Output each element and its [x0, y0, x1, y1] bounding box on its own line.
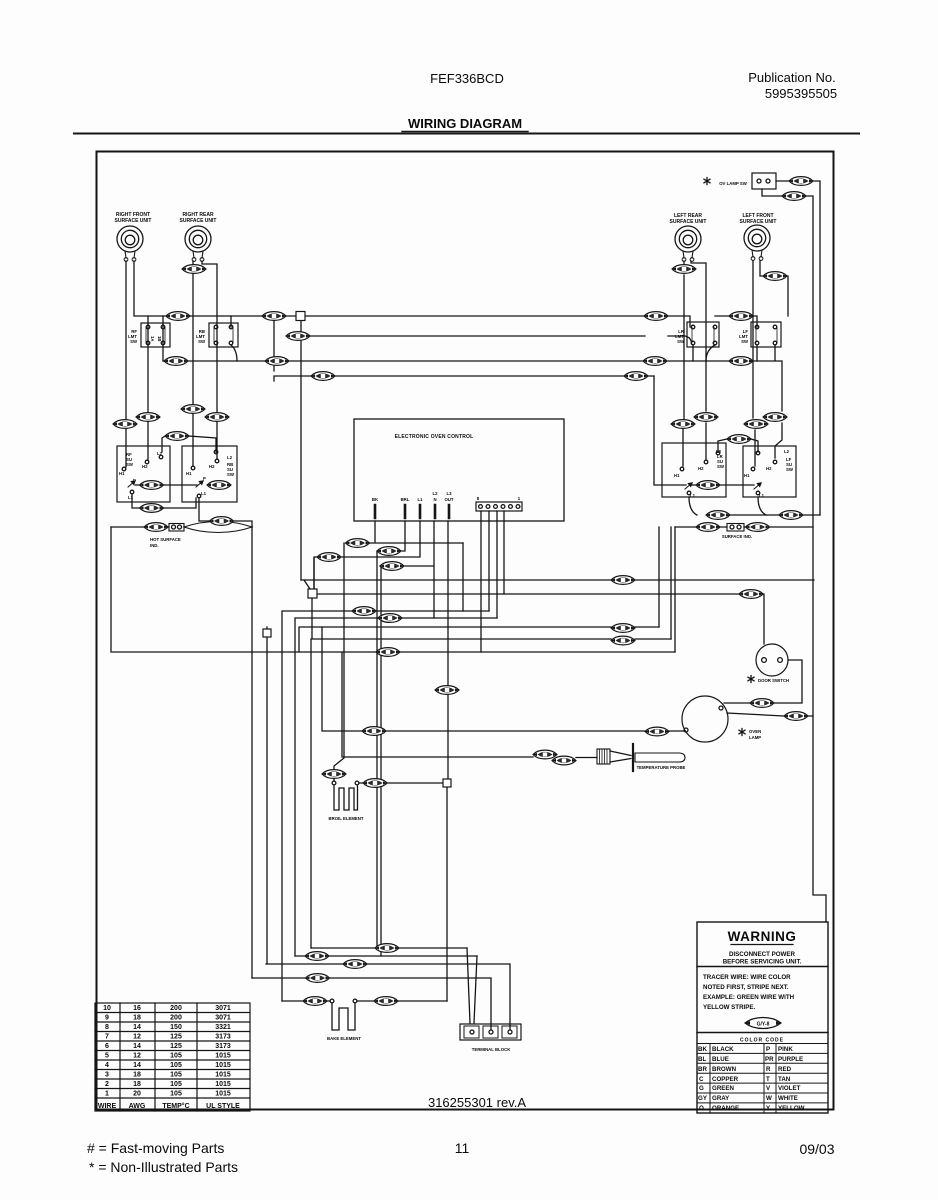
wire P link left boxes: [135, 484, 197, 486]
svg-text:1015: 1015: [215, 1081, 231, 1088]
wire bus y618: [295, 618, 497, 956]
svg-text:SURFACE IND.: SURFACE IND.: [722, 534, 752, 539]
surface unit RR: [185, 226, 211, 261]
wire RF coil left drop: [125, 261, 127, 467]
svg-text:SW: SW: [227, 472, 235, 477]
wire V into junction sq B: [304, 558, 314, 589]
svg-text:12: 12: [133, 1053, 141, 1060]
svg-text:BAKE ELEMENT: BAKE ELEMENT: [327, 1036, 361, 1041]
svg-text:YELLOW: YELLOW: [778, 1105, 805, 1112]
wire EOC pin L1 drop y557: [314, 521, 420, 589]
svg-text:G/Y-8: G/Y-8: [757, 1022, 770, 1028]
svg-text:BL: BL: [698, 1056, 706, 1063]
svg-text:H1: H1: [119, 471, 125, 476]
G/Y-8 tracer oval: [745, 1018, 781, 1029]
svg-text:1A: 1A: [150, 336, 155, 342]
wire door switch loop: [724, 660, 802, 703]
wire bus y611: [282, 611, 489, 1001]
svg-text:TRACER WIRE: WIRE COLOR: TRACER WIRE: WIRE COLOR: [703, 974, 791, 981]
wire LF LMT bottom pins drop: [757, 345, 775, 361]
svg-text:OVEN: OVEN: [749, 729, 761, 734]
connector oval bus y618: [378, 614, 402, 623]
wire EOC pin L3 straight drop to junction D: [447, 521, 449, 779]
svg-text:H2: H2: [209, 464, 215, 469]
svg-text:TAN: TAN: [778, 1076, 791, 1083]
svg-text:H2: H2: [766, 466, 772, 471]
wire EOC pin BK drop y543: [334, 521, 463, 770]
svg-text:8: 8: [105, 1024, 109, 1031]
svg-text:BR: BR: [698, 1066, 707, 1073]
svg-text:SURFACE UNIT: SURFACE UNIT: [115, 218, 152, 224]
wire bus y580: [301, 579, 814, 581]
temperature probe: [597, 749, 610, 764]
svg-text:14: 14: [133, 1043, 141, 1050]
wire L2 link left boxes via K oval: [162, 436, 216, 452]
svg-text:1015: 1015: [215, 1072, 231, 1079]
wire LF drop from bus y361 x782: [775, 423, 782, 458]
surface unit RF: [117, 226, 143, 261]
wire RF LMT right pin column x163: [162, 316, 164, 361]
svg-text:105: 105: [170, 1053, 182, 1060]
svg-text:R: R: [766, 1066, 771, 1073]
wire EOC pin BRL drop y551: [377, 521, 405, 947]
wire bus y316: [148, 316, 757, 327]
svg-text:5: 5: [105, 1053, 109, 1060]
junction square node D: [443, 779, 451, 787]
svg-text:PR: PR: [765, 1056, 774, 1063]
svg-text:WARNING: WARNING: [728, 929, 797, 944]
electronic oven control box: [354, 419, 564, 521]
wire bottom y978 to terminal block: [252, 978, 491, 1029]
connector ovals bus y316: [166, 312, 190, 321]
connector ovals bottom: [375, 944, 399, 953]
wire funnel to terminal block: [467, 948, 477, 1023]
wire LF SU L1 drop: [758, 497, 766, 515]
svg-text:DOOR SWITCH: DOOR SWITCH: [758, 678, 789, 683]
svg-text:105: 105: [170, 1062, 182, 1069]
switch RB LMT: [209, 323, 238, 347]
svg-text:Publication No.: Publication No.: [748, 70, 835, 85]
wire bus y594 door switch line: [318, 594, 764, 644]
wire x301 long drop from junction A to bus y580: [300, 321, 302, 580]
svg-text:IND.: IND.: [150, 543, 159, 548]
main frame border: [97, 152, 834, 1110]
svg-text:SURFACE UNIT: SURFACE UNIT: [180, 218, 217, 224]
wire P link right boxes: [690, 484, 754, 486]
svg-text:PINK: PINK: [778, 1046, 793, 1053]
connector ovals bus y361: [164, 357, 188, 366]
connector ovals top: [182, 265, 206, 274]
svg-text:1015: 1015: [215, 1091, 231, 1098]
svg-text:5995395505: 5995395505: [765, 86, 837, 101]
svg-text:RED: RED: [778, 1066, 792, 1073]
connector ovals bus y376: [311, 372, 335, 381]
svg-text:EXAMPLE: GREEN WIRE WITH: EXAMPLE: GREEN WIRE WITH: [703, 994, 795, 1001]
wire LF coil right jog to oval y276: [760, 261, 788, 316]
hot surface ind: [169, 524, 184, 532]
connector oval bus y594: [739, 590, 763, 599]
svg-text:L1: L1: [201, 491, 207, 496]
svg-text:N: N: [433, 497, 436, 502]
svg-text:10: 10: [103, 1005, 111, 1012]
wire junction sq C stub: [266, 627, 268, 629]
svg-text:YELLOW STRIPE.: YELLOW STRIPE.: [703, 1004, 756, 1011]
svg-text:H1: H1: [744, 473, 750, 478]
svg-text:14: 14: [133, 1062, 141, 1069]
svg-text:3173: 3173: [215, 1034, 231, 1041]
oven lamp switch: [704, 178, 710, 185]
wire bus y336: [287, 336, 691, 341]
svg-text:GREEN: GREEN: [712, 1085, 735, 1092]
svg-text:ORANGE: ORANGE: [712, 1105, 739, 1112]
svg-text:FEF336BCD: FEF336BCD: [430, 71, 504, 86]
svg-text:GRAY: GRAY: [712, 1095, 730, 1102]
color code table: [697, 1044, 828, 1114]
wire RR coil right jog to x217: [202, 261, 217, 459]
svg-text:W: W: [766, 1095, 772, 1102]
connector ovals EOC drops: [346, 539, 370, 548]
wire right riser x675: [674, 527, 676, 652]
svg-text:14: 14: [133, 1024, 141, 1031]
svg-text:SW: SW: [130, 339, 138, 344]
EOC terminal strip: [476, 502, 522, 511]
wire right riser x671: [670, 527, 672, 639]
svg-text:LAMP: LAMP: [749, 735, 761, 740]
svg-text:GY: GY: [698, 1095, 708, 1102]
svg-text:3321: 3321: [215, 1024, 231, 1031]
switch LR LMT: [687, 322, 719, 347]
svg-text:200: 200: [170, 1015, 182, 1022]
svg-text:SW: SW: [786, 467, 794, 472]
svg-text:DISCONNECT POWER: DISCONNECT POWER: [729, 951, 796, 958]
wire broil right to junction D: [359, 782, 443, 784]
wire temp probe feed: [342, 652, 533, 757]
svg-text:11: 11: [455, 1140, 470, 1156]
wire RF L1 drop to BU oval: [132, 494, 196, 508]
svg-text:9: 9: [105, 1015, 109, 1022]
svg-text:SURFACE UNIT: SURFACE UNIT: [740, 219, 777, 225]
surface unit LF: [744, 225, 770, 260]
svg-text:H1: H1: [186, 471, 192, 476]
svg-text:TERMINAL BLOCK: TERMINAL BLOCK: [472, 1047, 511, 1052]
wire RB L1 drop to ST oval: [199, 498, 252, 527]
svg-text:2: 2: [105, 1081, 109, 1088]
svg-text:L1: L1: [128, 495, 134, 500]
svg-text:TEMPERATURE PROBE: TEMPERATURE PROBE: [637, 765, 686, 770]
svg-text:TEMP°C: TEMP°C: [162, 1102, 189, 1110]
svg-text:125: 125: [170, 1034, 182, 1041]
wire RB LMT right pin bottom jog to bus y361: [231, 345, 237, 361]
svg-text:BK: BK: [698, 1046, 707, 1053]
connector oval bus y336: [286, 332, 310, 341]
wire bottom y956: [295, 955, 477, 957]
svg-text:L1: L1: [417, 497, 423, 502]
junction square node A: [296, 312, 305, 321]
connector oval K right: [727, 435, 751, 444]
wire lamp sw to right bus: [776, 181, 820, 515]
svg-text:AWG: AWG: [129, 1103, 146, 1110]
wire x654 drop to LR SU P loop: [654, 376, 686, 485]
svg-text:SW: SW: [126, 462, 134, 467]
connector oval hot surface: [144, 523, 168, 532]
bake element: [330, 999, 334, 1003]
warning box: [697, 922, 828, 1113]
svg-text:3: 3: [105, 1072, 109, 1079]
svg-text:P: P: [203, 476, 206, 481]
wire BK right branch x463: [462, 543, 464, 611]
wire LR coil right jog to x706: [691, 261, 706, 459]
connector ovals temp probe: [533, 750, 557, 759]
svg-text:1015: 1015: [215, 1053, 231, 1060]
svg-text:* = Non-Illustrated Parts: * = Non-Illustrated Parts: [89, 1159, 238, 1175]
svg-text:P: P: [766, 1046, 770, 1053]
broil element: [332, 781, 336, 785]
svg-text:NOTED FIRST, STRIPE NEXT.: NOTED FIRST, STRIPE NEXT.: [703, 984, 789, 991]
svg-text:WHITE: WHITE: [778, 1095, 798, 1102]
switch LF SU SW: [743, 446, 796, 497]
svg-text:COPPER: COPPER: [712, 1076, 739, 1083]
wire bottom y964 to terminal block: [266, 964, 510, 1029]
svg-text:125: 125: [170, 1043, 182, 1050]
svg-text:BROIL ELEMENT: BROIL ELEMENT: [328, 816, 363, 821]
svg-text:150: 150: [170, 1024, 182, 1031]
svg-text:OUT: OUT: [444, 497, 453, 502]
title rule: [74, 133, 859, 135]
svg-text:O: O: [699, 1105, 704, 1112]
svg-text:SURFACE UNIT: SURFACE UNIT: [670, 219, 707, 225]
terminal block: [460, 1024, 521, 1040]
wire LF coil left drop: [753, 261, 755, 466]
svg-text:105: 105: [170, 1072, 182, 1079]
switch RF SU SW: [117, 446, 170, 502]
wire bake line y1001: [282, 1000, 447, 1002]
switch RB SU SW: [182, 446, 237, 502]
svg-text:BEFORE SERVICING UNIT.: BEFORE SERVICING UNIT.: [723, 959, 802, 966]
svg-text:SW: SW: [741, 339, 749, 344]
svg-text:1: 1: [105, 1091, 109, 1098]
svg-text:VIOLET: VIOLET: [778, 1085, 801, 1092]
wire surface ind line y527: [675, 526, 813, 528]
connector oval BU below RF: [140, 504, 164, 513]
svg-text:16: 16: [133, 1005, 141, 1012]
connector ovals broil: [322, 770, 346, 779]
svg-text:SW: SW: [198, 339, 206, 344]
connector ovals right ind lines: [706, 511, 730, 520]
wire hot surface ind line: [111, 526, 169, 528]
svg-text:H2: H2: [698, 466, 704, 471]
svg-text:18: 18: [133, 1072, 141, 1079]
door switch: [756, 644, 788, 676]
svg-text:SW: SW: [717, 464, 725, 469]
connector oval bus y611: [352, 607, 376, 616]
wire gauge table: [95, 1003, 250, 1111]
wire ST drop x252: [251, 527, 253, 978]
wire LR coil left drop: [683, 261, 684, 466]
svg-text:WIRE: WIRE: [98, 1103, 117, 1110]
wire oven lamp line y731: [322, 627, 684, 731]
svg-text:T: T: [766, 1076, 770, 1083]
wire L2 link right boxes via K oval: [718, 439, 758, 452]
svg-text:18: 18: [133, 1015, 141, 1022]
svg-text:OV LAMP SW: OV LAMP SW: [719, 181, 748, 186]
svg-text:ELECTRONIC OVEN CONTROL: ELECTRONIC OVEN CONTROL: [395, 434, 474, 440]
switch LF LMT: [751, 322, 781, 347]
svg-text:COLOR CODE: COLOR CODE: [740, 1038, 784, 1044]
svg-text:BRL: BRL: [401, 497, 410, 502]
wire bus y627: [299, 627, 659, 652]
svg-text:1B: 1B: [157, 336, 162, 342]
svg-text:C: C: [699, 1076, 704, 1083]
svg-text:09/03: 09/03: [799, 1141, 834, 1157]
svg-text:316255301 rev.A: 316255301 rev.A: [428, 1095, 526, 1110]
svg-text:L3: L3: [446, 491, 452, 496]
wire RB LMT right pin top stub: [230, 316, 232, 327]
surface ind right: [727, 524, 744, 532]
wire bottom y948 to funnel: [311, 947, 467, 949]
svg-text:BLUE: BLUE: [712, 1056, 729, 1063]
svg-text:3071: 3071: [215, 1015, 231, 1022]
svg-text:PURPLE: PURPLE: [778, 1056, 803, 1063]
wire RF coil right drop with jog to x148: [134, 261, 148, 460]
junction square node B: [308, 589, 317, 598]
wire lamp sw bottom to oval y196: [762, 189, 826, 922]
svg-text:H1: H1: [674, 473, 680, 478]
junction square node C: [263, 629, 271, 637]
svg-text:WIRING DIAGRAM: WIRING DIAGRAM: [408, 116, 522, 131]
svg-text:1015: 1015: [215, 1062, 231, 1069]
switch RF LMT: [141, 323, 170, 347]
svg-text:UL STYLE: UL STYLE: [206, 1103, 240, 1110]
wires-main group: [111, 181, 826, 1029]
wire broil left feed bottom: [333, 778, 335, 781]
svg-text:L2: L2: [784, 449, 790, 454]
connector oval bus y639: [611, 636, 635, 645]
svg-text:7: 7: [105, 1034, 109, 1041]
svg-text:SW: SW: [677, 339, 685, 344]
svg-text:BK: BK: [372, 497, 379, 502]
svg-text:HOT SURFACE: HOT SURFACE: [150, 537, 181, 542]
connector oval bus y627: [611, 624, 635, 633]
connector ovals coil drops: [113, 420, 137, 429]
svg-text:L1: L1: [690, 493, 696, 498]
svg-text:200: 200: [170, 1005, 182, 1012]
svg-text:H2: H2: [142, 464, 148, 469]
switch LR SU SW: [662, 443, 726, 497]
wire EOC pin L2 drop y566: [380, 521, 434, 956]
svg-text:BLACK: BLACK: [712, 1046, 734, 1053]
svg-text:L2: L2: [227, 455, 233, 460]
svg-text:L1: L1: [759, 493, 765, 498]
connector oval bus y580: [611, 576, 635, 585]
wire junction D to bake feed: [446, 787, 448, 1001]
svg-text:3071: 3071: [215, 1005, 231, 1012]
wire bus y633 junction sq C drop: [266, 637, 268, 964]
wire drop from oval y316 to bus y376: [274, 321, 654, 381]
svg-text:BROWN: BROWN: [712, 1066, 737, 1073]
surface unit LR: [675, 226, 701, 261]
connector oval ST below RB: [210, 517, 234, 526]
oven lamp: [682, 696, 728, 742]
connector ovals P lines: [140, 481, 164, 490]
svg-text:105: 105: [170, 1091, 182, 1098]
connector oval K left: [165, 432, 189, 441]
svg-text:12: 12: [133, 1034, 141, 1041]
svg-text:20: 20: [133, 1091, 141, 1098]
wire bus y361: [163, 361, 782, 411]
svg-text:L2: L2: [432, 491, 438, 496]
wire oven lamp right y716: [727, 713, 813, 716]
svg-text:4: 4: [105, 1062, 109, 1069]
wire RR coil left drop: [192, 261, 194, 466]
connector ovals oven lamp line: [362, 727, 386, 736]
wire LR LMT bottom pins drop: [693, 345, 715, 361]
wire right riser x659: [658, 527, 660, 627]
svg-text:6: 6: [105, 1043, 109, 1050]
svg-text:G: G: [699, 1085, 704, 1092]
svg-text:3173: 3173: [215, 1043, 231, 1050]
wire bus y652 from hot-surface-ind: [111, 527, 675, 652]
connector oval bus y652: [376, 648, 400, 657]
wire EOC strip drops: [481, 511, 504, 652]
svg-text:# = Fast-moving Parts: # = Fast-moving Parts: [87, 1140, 224, 1156]
wire bus y639 with left drop: [311, 598, 671, 948]
svg-text:105: 105: [170, 1081, 182, 1088]
wire LR SU L1 drop to y515: [689, 497, 820, 515]
svg-text:18: 18: [133, 1081, 141, 1088]
